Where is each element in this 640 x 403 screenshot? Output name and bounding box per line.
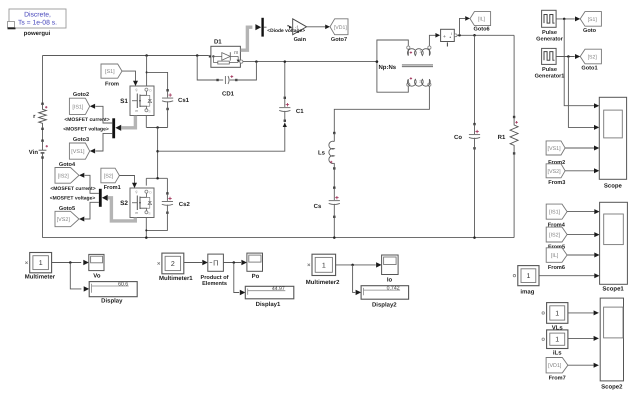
svg-text:[IS2]: [IS2]: [549, 233, 561, 239]
svg-text:Goto7: Goto7: [331, 37, 347, 43]
svg-text:Vo: Vo: [93, 273, 101, 280]
svg-text:Pulse: Pulse: [542, 66, 557, 73]
svg-text:[VS1]: [VS1]: [71, 149, 85, 155]
svg-text:+: +: [443, 34, 446, 40]
svg-text:From1: From1: [104, 185, 121, 191]
svg-text:Po: Po: [252, 273, 260, 280]
svg-text:Goto3: Goto3: [73, 137, 89, 143]
svg-text:m: m: [135, 109, 138, 113]
svg-text:S2: S2: [120, 200, 128, 207]
svg-text:1: 1: [322, 262, 326, 269]
svg-text:[IL]: [IL]: [551, 253, 559, 259]
svg-text:Scope: Scope: [604, 183, 623, 190]
svg-text:Ls: Ls: [318, 150, 326, 157]
svg-text:Goto2: Goto2: [73, 92, 89, 98]
svg-text:Multimeter1: Multimeter1: [159, 275, 193, 282]
svg-text:S: S: [148, 109, 150, 113]
svg-text:Vin: Vin: [29, 149, 39, 156]
svg-text:D1: D1: [214, 39, 222, 46]
svg-text:Display1: Display1: [256, 301, 281, 308]
svg-text:2: 2: [419, 79, 421, 83]
svg-text:Co: Co: [454, 134, 462, 141]
svg-text:Scope1: Scope1: [602, 286, 624, 293]
svg-text:<MOSFET voltage>: <MOSFET voltage>: [63, 126, 109, 132]
svg-text:[S2]: [S2]: [588, 55, 598, 61]
svg-text:Pulse: Pulse: [542, 29, 557, 36]
svg-text:Cs: Cs: [314, 203, 322, 210]
svg-text:[S1]: [S1]: [105, 69, 115, 75]
svg-text:Goto: Goto: [583, 28, 597, 34]
svg-text:m: m: [234, 50, 238, 56]
svg-text:1: 1: [419, 50, 421, 54]
svg-text:[VS2]: [VS2]: [57, 217, 71, 223]
svg-text:[IS1]: [IS1]: [549, 210, 561, 216]
svg-text:S1: S1: [120, 98, 128, 105]
svg-text:Goto4: Goto4: [59, 162, 76, 168]
svg-text:m: m: [135, 211, 138, 215]
svg-text:[IS1]: [IS1]: [72, 104, 84, 110]
svg-text:i: i: [451, 31, 452, 36]
svg-text:Display2: Display2: [372, 302, 397, 309]
svg-text:Goto1: Goto1: [581, 65, 597, 71]
svg-text:Cs1: Cs1: [178, 97, 190, 104]
svg-text:Cs2: Cs2: [179, 201, 191, 208]
svg-text:2: 2: [171, 261, 175, 268]
svg-text:44.97: 44.97: [272, 286, 285, 292]
svg-text:<MOSFET current>: <MOSFET current>: [50, 186, 95, 192]
svg-text:imag: imag: [520, 289, 534, 296]
svg-text:Multimeter2: Multimeter2: [306, 279, 340, 286]
svg-text:<MOSFET current>: <MOSFET current>: [64, 117, 109, 123]
svg-text:[VD1]: [VD1]: [548, 363, 562, 369]
svg-text:R1: R1: [498, 134, 506, 141]
svg-text:Goto6: Goto6: [474, 27, 490, 33]
svg-text:[S2]: [S2]: [104, 174, 114, 180]
svg-text:60.6: 60.6: [118, 281, 128, 287]
svg-text:Display: Display: [101, 298, 123, 305]
svg-text:1: 1: [526, 273, 530, 280]
svg-text:Np:Ns: Np:Ns: [378, 64, 396, 71]
svg-text:0.742: 0.742: [387, 286, 400, 292]
svg-text:Generator1: Generator1: [535, 74, 565, 80]
svg-text:Elements: Elements: [202, 280, 227, 287]
svg-text:1: 1: [555, 337, 559, 344]
svg-text:g: g: [136, 88, 138, 92]
svg-text:CD1: CD1: [222, 90, 235, 97]
svg-text:C1: C1: [296, 108, 304, 115]
svg-text:From: From: [105, 81, 119, 87]
svg-text:Multimeter: Multimeter: [25, 274, 56, 281]
svg-text:iLs: iLs: [553, 350, 562, 357]
svg-text:S: S: [148, 211, 150, 215]
svg-text:From6: From6: [548, 265, 565, 271]
svg-text:g: g: [136, 190, 138, 194]
svg-text:[IL]: [IL]: [478, 17, 486, 23]
svg-text:1: 1: [555, 310, 559, 317]
svg-text:Scope2: Scope2: [601, 383, 623, 390]
svg-text:From7: From7: [549, 375, 566, 381]
svg-text:[IS2]: [IS2]: [58, 173, 70, 179]
svg-text:Π: Π: [213, 258, 218, 267]
svg-text:Io: Io: [387, 276, 393, 283]
svg-text:Discrete,: Discrete,: [24, 12, 51, 19]
svg-text:[VD1]: [VD1]: [334, 25, 348, 31]
svg-text:Product of: Product of: [201, 274, 229, 281]
svg-text:1: 1: [39, 260, 43, 267]
svg-text:<MOSFET voltage>: <MOSFET voltage>: [50, 195, 96, 201]
svg-text:[S1]: [S1]: [588, 17, 598, 23]
svg-text:<Diode voltage>: <Diode voltage>: [267, 28, 305, 34]
svg-text:[VS1]: [VS1]: [547, 146, 561, 152]
svg-text:Ts = 1e-08 s.: Ts = 1e-08 s.: [18, 20, 57, 27]
svg-text:[VS2]: [VS2]: [547, 169, 561, 175]
svg-text:Gain: Gain: [294, 36, 307, 43]
svg-text:From3: From3: [548, 180, 565, 186]
svg-text:powergui: powergui: [24, 30, 51, 37]
svg-text:Generator: Generator: [536, 37, 564, 43]
svg-text:Goto5: Goto5: [59, 206, 75, 212]
